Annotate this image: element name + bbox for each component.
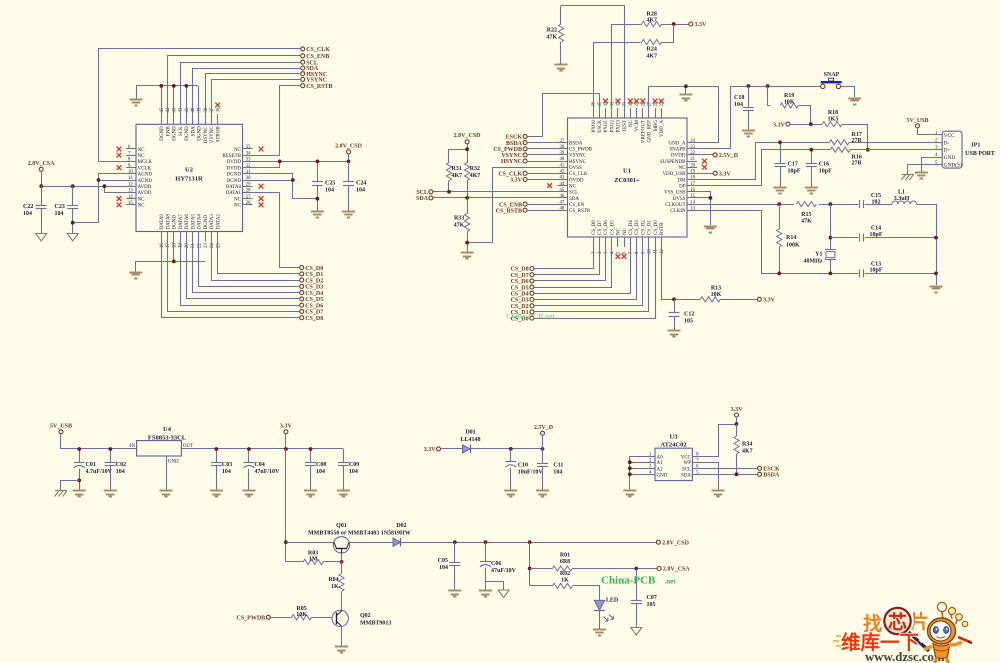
- svg-text:SUSPENDB: SUSPENDB: [660, 160, 686, 165]
- wire 5V rail: [61, 448, 343, 450]
- node 2.8V_CSA terminal: [657, 567, 690, 573]
- svg-text:36: 36: [216, 107, 221, 112]
- svg-text:A0: A0: [657, 455, 664, 460]
- svg-text:1K: 1K: [331, 584, 339, 590]
- svg-text:GND_REF: GND_REF: [648, 120, 653, 143]
- svg-text:D+: D+: [944, 148, 951, 154]
- svg-text:NC: NC: [617, 227, 622, 235]
- resistor R13 10K: [700, 286, 757, 302]
- wire Q01 emitter line: [286, 542, 334, 544]
- svg-text:41: 41: [560, 163, 565, 168]
- svg-text:C25: C25: [325, 181, 335, 187]
- node 3.3V terminal above R34: [731, 407, 744, 424]
- junction dot R31 on SCL: [447, 190, 451, 194]
- svg-text:CS_D4: CS_D4: [511, 292, 529, 298]
- svg-text:CS_D2: CS_D2: [511, 304, 529, 310]
- ground below C03: [210, 491, 223, 497]
- svg-text:C24: C24: [356, 181, 366, 187]
- svg-text:GND: GND: [944, 155, 956, 161]
- wire OVSS to ground join: [467, 168, 557, 243]
- svg-text:16: 16: [690, 188, 695, 193]
- svg-text:DGND: DGND: [173, 215, 178, 230]
- svg-text:MBG: MBG: [654, 120, 659, 132]
- no-connect X marks on U2 pins 6,7,9,14,15: [117, 147, 122, 208]
- svg-text:3.3V: 3.3V: [424, 447, 437, 453]
- junction dot C06 top: [484, 540, 488, 544]
- svg-text:SDA: SDA: [681, 473, 691, 478]
- svg-text:36: 36: [592, 101, 597, 106]
- svg-text:14: 14: [690, 200, 695, 205]
- svg-text:NC: NC: [138, 154, 146, 159]
- wire C06 to triangle ground: [486, 582, 504, 590]
- wires U1 data bus fan: [534, 247, 656, 319]
- svg-text:3.3V: 3.3V: [731, 407, 744, 413]
- svg-text:27R: 27R: [852, 138, 863, 144]
- svg-text:www.dzsc.com: www.dzsc.com: [865, 650, 945, 663]
- svg-text:VSS_USB: VSS_USB: [664, 191, 686, 196]
- wire DP to USB D+ through R16: [697, 150, 932, 186]
- svg-text:31: 31: [623, 101, 628, 106]
- svg-text:CS_EN: CS_EN: [569, 203, 585, 208]
- svg-text:BSDA: BSDA: [569, 141, 583, 146]
- svg-text:C15: C15: [871, 193, 881, 199]
- capacitor C10 10uF polarized: [505, 449, 543, 490]
- resistor R31 4K7: [446, 163, 462, 192]
- svg-text:20: 20: [185, 243, 190, 248]
- svg-text:NC: NC: [679, 166, 687, 171]
- svg-text:CS_D0: CS_D0: [305, 266, 323, 272]
- svg-text:D-: D-: [944, 140, 950, 146]
- svg-text:HSYNC: HSYNC: [501, 159, 522, 165]
- svg-text:10pF: 10pF: [788, 169, 801, 175]
- capacitor C09 104: [338, 449, 359, 490]
- svg-text:104: 104: [23, 211, 32, 217]
- svg-text:R22: R22: [547, 28, 557, 34]
- svg-text:C17: C17: [788, 162, 798, 168]
- svg-text:R24: R24: [647, 47, 657, 53]
- node ESCK terminal: [758, 466, 780, 472]
- ground below C25: [311, 212, 324, 218]
- triangle ground right of C06: [498, 590, 509, 598]
- svg-text:47: 47: [560, 200, 565, 205]
- junction dot Q01 base node: [340, 560, 344, 564]
- ground below C17: [774, 188, 787, 194]
- junction dot crystal bottom: [829, 272, 833, 276]
- resistor R02 1K: [530, 571, 600, 601]
- svg-text:DATA8: DATA8: [166, 214, 171, 230]
- svg-text:HSYNC: HSYNC: [204, 126, 209, 144]
- svg-text:104: 104: [55, 211, 64, 217]
- wire VSS_USB DVSS to ground: [697, 192, 711, 226]
- svg-text:CS_D3: CS_D3: [635, 220, 640, 235]
- svg-text:10pF: 10pF: [819, 169, 832, 175]
- node 5V_USB terminal at JP1: [906, 118, 932, 134]
- svg-text:15: 15: [690, 194, 695, 199]
- node 2.8V_CSA terminal: [28, 161, 56, 172]
- wire ESCK terminal to U1 top pin 35: [527, 94, 599, 137]
- svg-text:44: 44: [560, 182, 565, 187]
- wire DGND bracket below U2: [136, 242, 206, 272]
- node 2.5V_D terminal: [697, 153, 739, 159]
- wires BSDA CS_PWDB VSYNC HSYNC to U1: [527, 143, 557, 162]
- diode D02 1N5819HW: [393, 523, 407, 546]
- svg-text:37: 37: [560, 139, 565, 144]
- svg-text:2.8V_CSD: 2.8V_CSD: [662, 540, 690, 546]
- svg-text:CS_D3: CS_D3: [511, 298, 529, 304]
- ground below C02: [104, 491, 117, 497]
- junction dot R33 bottom: [465, 241, 469, 245]
- ground below C05: [448, 591, 461, 597]
- svg-text:WP: WP: [684, 461, 692, 466]
- svg-text:CS_D6: CS_D6: [305, 303, 323, 309]
- wire 2.8V_CSA rail: [42, 171, 127, 192]
- svg-text:18: 18: [690, 176, 695, 181]
- svg-text:CS_RSTB: CS_RSTB: [306, 84, 332, 90]
- svg-text:C10: C10: [518, 463, 528, 469]
- svg-text:C13: C13: [871, 261, 881, 267]
- svg-text:MMBT9013: MMBT9013: [360, 621, 391, 627]
- capacitor C06 47uF polarized: [480, 542, 517, 590]
- svg-text:CS_D8: CS_D8: [305, 316, 323, 322]
- svg-text:SCL: SCL: [416, 190, 428, 196]
- svg-text:48MHz: 48MHz: [804, 259, 823, 265]
- svg-text:LED: LED: [606, 598, 619, 604]
- svg-text:CS_D7: CS_D7: [305, 310, 323, 316]
- capacitor C04 47uF polarized: [243, 449, 280, 490]
- svg-text:DATA3: DATA3: [210, 214, 215, 230]
- wire branch to R01 R02: [529, 542, 531, 586]
- capacitor C13 10pF series: [860, 261, 883, 277]
- junction dot R19 tap: [766, 84, 770, 88]
- svg-text:5V_USB: 5V_USB: [906, 118, 928, 124]
- svg-text:104: 104: [734, 102, 743, 108]
- svg-text:40: 40: [560, 157, 565, 162]
- svg-text:R02: R02: [560, 571, 570, 577]
- svg-text:5V_USB: 5V_USB: [50, 424, 72, 430]
- ground below VSS_USB: [704, 227, 717, 233]
- svg-text:VSYNC: VSYNC: [569, 154, 587, 159]
- resistor R28 4K7: [642, 12, 662, 27]
- svg-text:6R8: 6R8: [560, 559, 570, 565]
- svg-text:48: 48: [560, 206, 565, 211]
- svg-text:DATA7: DATA7: [179, 214, 184, 230]
- wires U2 data bus fan to CS_D terminals: [162, 242, 300, 318]
- svg-text:2.8V_CSA: 2.8V_CSA: [663, 567, 691, 573]
- svg-text:GND: GND: [657, 473, 668, 478]
- svg-text:104: 104: [316, 469, 325, 475]
- svg-text:VSYNC: VSYNC: [501, 153, 522, 159]
- svg-text:VCC: VCC: [681, 455, 692, 460]
- junction dot DVSS join: [709, 196, 713, 200]
- capacitor C17: [775, 142, 801, 186]
- svg-text:CS_D1: CS_D1: [305, 272, 323, 278]
- wire MCLK to CS_CLK: [99, 49, 301, 162]
- svg-text:104: 104: [356, 188, 365, 194]
- ground below LED: [593, 630, 606, 636]
- node 5V_USB terminal bottom left: [50, 424, 72, 449]
- svg-text:3.3V: 3.3V: [510, 178, 523, 184]
- svg-text:GND_A: GND_A: [669, 141, 686, 146]
- svg-text:105: 105: [647, 602, 656, 608]
- svg-text:3.3V: 3.3V: [280, 424, 293, 430]
- svg-text:2.8V_CSA: 2.8V_CSA: [28, 161, 56, 167]
- junction dot AGND join: [97, 178, 101, 182]
- svg-text:CS_PWDB: CS_PWDB: [237, 616, 266, 622]
- svg-text:19: 19: [179, 243, 184, 248]
- svg-text:IN: IN: [130, 444, 136, 449]
- svg-text:ESCK: ESCK: [506, 135, 523, 141]
- svg-text:VDD_USB: VDD_USB: [662, 172, 686, 177]
- resistor R14 100K: [777, 204, 800, 273]
- svg-text:40: 40: [191, 107, 196, 112]
- svg-text:42: 42: [560, 170, 565, 175]
- svg-text:CS_D5: CS_D5: [610, 220, 615, 235]
- node 2.8V_CSD terminal right of U2: [335, 143, 363, 161]
- svg-text:39: 39: [560, 151, 565, 156]
- ground below C01: [73, 491, 86, 497]
- svg-text:CS_D4: CS_D4: [629, 220, 634, 235]
- svg-text:10: 10: [128, 170, 133, 175]
- svg-text:4K7: 4K7: [742, 449, 753, 455]
- capacitor C24: [343, 161, 366, 211]
- wire DATA1 DATA0 to CS_D0: [253, 193, 300, 268]
- svg-text:DGND: DGND: [227, 173, 242, 178]
- U2 top pins 45-36 with labels: [160, 107, 222, 143]
- LED indicator: [594, 598, 619, 629]
- svg-text:C08: C08: [316, 462, 326, 468]
- svg-text:CS_D0: CS_D0: [654, 220, 659, 235]
- node terminals CS_ENB CS_RSTB at U1: [496, 202, 558, 214]
- wire U3 SDA to BSDA: [700, 474, 758, 476]
- junction dot R32 on SDA: [465, 196, 469, 200]
- node BSDA terminal: [758, 472, 780, 478]
- ground below C11: [536, 491, 549, 497]
- svg-text:R33: R33: [454, 216, 464, 222]
- ground below C16: [805, 188, 818, 194]
- svg-text:AVDD: AVDD: [138, 185, 152, 190]
- wire HSYNC pin to HSYNC: [206, 74, 301, 115]
- svg-text:MMBT8550 or MMBT4403 1N5819HW: MMBT8550 or MMBT4403 1N5819HW: [308, 531, 411, 537]
- svg-text:PXO3: PXO3: [617, 120, 622, 133]
- U2 bottom pins 16-25 with labels: [160, 214, 222, 248]
- junction dot line C right: [934, 272, 938, 276]
- svg-text:OVDD: OVDD: [569, 178, 584, 183]
- junction dots on DGND bracket: [159, 84, 188, 88]
- capacitor C03 104: [211, 449, 232, 490]
- junction dot crystal top: [829, 202, 833, 206]
- svg-text:3.3V: 3.3V: [773, 122, 786, 128]
- svg-text:C02: C02: [116, 462, 126, 468]
- svg-text:PXO1: PXO1: [604, 120, 609, 133]
- svg-text:NC: NC: [234, 148, 242, 153]
- svg-text:104: 104: [325, 188, 334, 194]
- wire C01 to chassis ground: [61, 481, 80, 491]
- svg-text:22: 22: [690, 151, 695, 156]
- svg-text:ENB: ENB: [166, 126, 171, 137]
- ground below C09: [337, 491, 350, 497]
- svg-text:NC: NC: [623, 227, 628, 235]
- svg-text:15: 15: [128, 201, 133, 206]
- diode D01 LL4148: [460, 430, 480, 454]
- wire DGND pins to C25 bottom: [253, 174, 318, 199]
- transistor Q01 MMBT8550: [308, 523, 411, 553]
- svg-text:FS8853-33CL: FS8853-33CL: [148, 434, 187, 441]
- ground below Q02: [335, 647, 348, 653]
- svg-text:45: 45: [560, 188, 565, 193]
- svg-text:35: 35: [598, 101, 603, 106]
- node terminals CS_D0-CS_D8 from U2: [300, 266, 324, 322]
- svg-text:12: 12: [128, 182, 133, 187]
- svg-text:1K5: 1K5: [828, 117, 839, 123]
- svg-text:3.3uH: 3.3uH: [894, 196, 910, 202]
- resistor R24 4K7: [642, 39, 662, 59]
- svg-text:BSDA: BSDA: [506, 141, 523, 147]
- svg-text:C03: C03: [222, 462, 232, 468]
- svg-text:CS_CLK: CS_CLK: [569, 172, 588, 177]
- wire AGND pins to C23: [73, 174, 126, 223]
- svg-text:OUT: OUT: [183, 444, 193, 449]
- svg-text:R14: R14: [786, 235, 796, 241]
- svg-text:AGND: AGND: [138, 179, 153, 184]
- wire Q01 base to R03 R04: [341, 553, 343, 562]
- svg-text:CS_PWDB: CS_PWDB: [569, 148, 593, 153]
- svg-text:JP1: JP1: [971, 143, 981, 149]
- svg-text:10K: 10K: [784, 100, 795, 106]
- wire Q02 emitter to ground: [341, 626, 343, 646]
- svg-text:SDA: SDA: [569, 197, 579, 202]
- wire RESETB to CS_RSTB: [253, 86, 301, 156]
- svg-text:CS_CLK: CS_CLK: [498, 172, 522, 178]
- svg-text:3.3V: 3.3V: [695, 22, 708, 28]
- resistor R17 27R: [829, 132, 862, 145]
- svg-text:VCM: VCM: [635, 119, 640, 131]
- svg-text:R31: R31: [452, 166, 462, 172]
- svg-text:R04: R04: [328, 577, 338, 583]
- svg-text:32: 32: [246, 164, 251, 169]
- svg-text:11: 11: [654, 249, 659, 254]
- wire DGND bracket above U2: [137, 86, 199, 115]
- node terminals CS_CLK and 3.3V at U1: [498, 171, 557, 183]
- node 2.8V_CSD terminal above R31 R32: [454, 133, 482, 144]
- svg-text:42: 42: [179, 107, 184, 112]
- svg-text:4.7uF/10V: 4.7uF/10V: [86, 469, 113, 475]
- svg-text:Y1: Y1: [815, 252, 822, 258]
- svg-text:43: 43: [560, 176, 565, 181]
- wire SCL line: [433, 191, 558, 193]
- resistor R01 6R8: [530, 553, 658, 572]
- svg-text:46: 46: [560, 194, 565, 199]
- svg-text:SCK: SCK: [179, 126, 184, 136]
- svg-text:47K: 47K: [801, 219, 812, 225]
- capacitor C25: [312, 161, 335, 211]
- svg-text:SNAPB: SNAPB: [669, 148, 686, 153]
- junction dot C11 top: [541, 447, 545, 451]
- svg-text:104: 104: [222, 469, 231, 475]
- junction dot R28 right: [672, 22, 676, 26]
- svg-text:104: 104: [116, 469, 125, 475]
- resistor R15 47K: [796, 202, 816, 225]
- svg-text:MCLK: MCLK: [138, 160, 153, 165]
- capacitor C08 104: [305, 449, 326, 490]
- svg-text:104: 104: [553, 470, 562, 476]
- junction dot C01 chassis branch: [77, 479, 81, 483]
- capacitor C05 104: [438, 542, 461, 590]
- junction dot C02 top: [108, 447, 112, 451]
- junction dot DVDD join: [278, 160, 282, 164]
- svg-text:NC: NC: [138, 148, 146, 153]
- svg-text:CS_D7: CS_D7: [511, 273, 529, 279]
- svg-text:C07: C07: [647, 595, 657, 601]
- svg-text:CS_D8: CS_D8: [511, 267, 529, 273]
- svg-text:1K: 1K: [561, 577, 569, 583]
- wire pin33 to R28 to 3.3V: [612, 25, 689, 109]
- svg-text:U1: U1: [623, 168, 631, 175]
- ground below C23: [67, 234, 78, 242]
- wire JP1 GND to ground: [922, 158, 933, 173]
- svg-text:104: 104: [439, 565, 448, 571]
- svg-text:L1: L1: [898, 190, 905, 196]
- junction dot R18 to Dplus: [866, 148, 870, 152]
- svg-text:DATA5: DATA5: [191, 214, 196, 230]
- junction dot C25 top: [316, 160, 320, 164]
- node terminals ESCK BSDA CS_PWDB VSYNC HSYNC: [493, 134, 527, 165]
- junction dot C16 on D+: [809, 148, 813, 152]
- svg-text:104: 104: [349, 469, 358, 475]
- svg-text:BSDA: BSDA: [763, 473, 780, 479]
- svg-text:C23: C23: [55, 204, 65, 210]
- node 2.5V_D terminal bottom: [534, 425, 554, 449]
- capacitor C18: [734, 86, 754, 130]
- svg-text:CS_D4: CS_D4: [305, 291, 323, 297]
- svg-text:C11: C11: [553, 463, 563, 469]
- svg-text:CS_RSTB: CS_RSTB: [496, 208, 522, 214]
- svg-text:U4: U4: [163, 426, 172, 433]
- svg-text:RESETB: RESETB: [222, 154, 241, 159]
- svg-text:2.5V_D: 2.5V_D: [719, 153, 739, 159]
- capacitor C07 105: [631, 569, 657, 628]
- junction dot C12 top: [672, 297, 676, 301]
- wire SDA line: [433, 197, 558, 199]
- U1 bottom pins 1-12 with labels: [592, 220, 665, 254]
- svg-text:21: 21: [191, 243, 196, 248]
- svg-text:19: 19: [690, 170, 695, 175]
- crystal Y1 48MHz: [804, 204, 836, 273]
- wire D02 to 2.8V_CSD: [401, 542, 656, 544]
- node 3.3V terminal top right: [689, 22, 707, 28]
- capacitor C22: [23, 186, 47, 233]
- junction dots U3 address join: [628, 460, 632, 476]
- U1 right pins 24-13 with labels: [660, 139, 697, 214]
- svg-text:A1: A1: [657, 461, 664, 466]
- voltage regulator U4 FS8853-33CL: [130, 426, 193, 490]
- svg-text:DVDD: DVDD: [671, 154, 686, 159]
- svg-text:2.5V_D: 2.5V_D: [534, 425, 554, 431]
- wire CLKOUT line A: [697, 205, 937, 286]
- ground below U2: [129, 273, 142, 279]
- svg-text:28: 28: [246, 189, 251, 194]
- svg-text:PXO0: PXO0: [592, 120, 597, 133]
- chassis ground bottom left: [55, 491, 68, 497]
- resistor R33 47K: [454, 198, 470, 252]
- svg-text:41: 41: [185, 107, 190, 112]
- svg-text:11: 11: [128, 176, 133, 181]
- svg-text:AVDD: AVDD: [138, 191, 152, 196]
- svg-text:24: 24: [210, 243, 215, 248]
- svg-text:31: 31: [246, 170, 251, 175]
- wire SNAPB to SNAP button: [697, 87, 821, 149]
- svg-text:.net: .net: [665, 578, 677, 586]
- svg-text:芯: 芯: [888, 611, 907, 634]
